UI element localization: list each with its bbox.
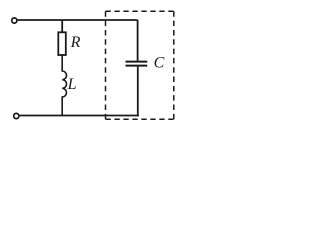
svg-text:R: R [70, 34, 81, 51]
svg-text:C: C [154, 54, 165, 71]
svg-text:L: L [67, 76, 77, 93]
